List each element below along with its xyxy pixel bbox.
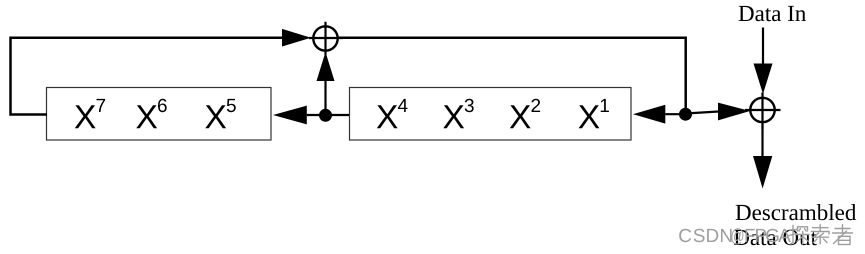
arrowhead Descrambled Data Out (753, 156, 772, 189)
node B junction dot (679, 108, 692, 121)
索 (812, 225, 830, 244)
node A junction dot (319, 109, 332, 122)
value label X^2 (510, 105, 531, 128)
arrowhead into X7 box (273, 106, 307, 125)
Data In label (739, 6, 806, 21)
watermark 探索者 glyphs drawn as paths (789, 225, 853, 245)
者 (833, 225, 853, 245)
arrowhead into XOR2 (718, 103, 750, 121)
watermark CSDN @FPGA (679, 228, 791, 244)
op-amp XOR2 (modulo-2 adder, right) (745, 93, 781, 130)
arrowhead Data In into XOR2 (754, 64, 773, 95)
wire node B segment left (665, 113, 685, 115)
arrowhead into XOR1 (282, 29, 311, 47)
register box X4 X3 X2 X1 (350, 88, 632, 141)
探 (789, 226, 809, 245)
arrowhead into X4..X1 box (633, 105, 665, 124)
value label X^5 (205, 105, 226, 128)
arrowhead up into XOR1 (317, 52, 335, 81)
wire feedback from X7 box input up and across to XOR1 (11, 38, 283, 115)
value label X^4 (377, 105, 398, 128)
value label X^6 (136, 105, 157, 128)
wire XOR2 output down (761, 124, 763, 157)
value label X^3 (443, 105, 464, 128)
wire node A segment (307, 114, 349, 116)
wire Data In down (762, 28, 764, 65)
wire node B to XOR2 (686, 112, 719, 114)
value label X^7 (75, 105, 96, 128)
Descrambled Data Out label (736, 204, 856, 220)
wire node A up toward XOR1 (324, 81, 326, 116)
value label X^1 (579, 105, 600, 128)
op-amp XOR1 (modulo-2 adder, top) (309, 22, 343, 55)
register box X7 X6 X5 (47, 88, 272, 141)
wire XOR1 output across top and down to node B (339, 38, 686, 110)
